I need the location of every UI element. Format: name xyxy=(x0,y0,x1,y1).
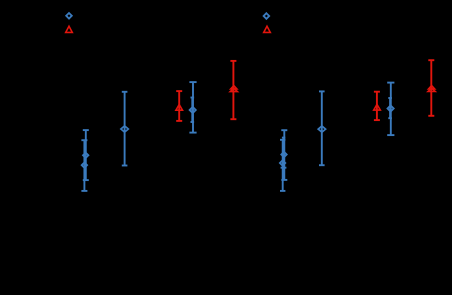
marker R3r (red triangle) xyxy=(374,104,381,110)
legend marker series2 (red triangle) xyxy=(66,26,73,32)
marker L4a (red triangle) xyxy=(231,86,237,89)
marker L2 (blue diamond) xyxy=(121,126,128,132)
legend marker series1 (blue diamond) xyxy=(66,13,72,19)
error bar R3b inner (blue) xyxy=(388,98,392,118)
marker R3b (blue diamond) xyxy=(388,105,394,111)
marker L3b (blue diamond) xyxy=(190,107,196,113)
error bar L4 (red) xyxy=(230,61,236,119)
legend marker series1 right (blue diamond) xyxy=(264,13,270,19)
error bar R1a (blue) xyxy=(281,130,287,180)
marker R2 (blue diamond) xyxy=(318,126,325,132)
marker L1b (blue diamond) xyxy=(82,162,87,167)
error bar L3b outer (blue) xyxy=(189,82,196,133)
error bar R1b (blue) xyxy=(280,140,285,191)
error bar L3b inner (blue) xyxy=(191,98,195,123)
marker R1b (blue diamond) xyxy=(280,160,285,165)
error bar R1c (blue, short inner) xyxy=(281,138,287,168)
error bar R2 (blue) xyxy=(319,91,325,165)
error bar R3b outer (blue) xyxy=(387,83,394,136)
legend marker series2 right (red triangle) xyxy=(264,26,271,32)
marker L4b (red triangle) xyxy=(230,88,237,91)
error bar L1a (blue) xyxy=(83,130,89,180)
marker R4b (red triangle) xyxy=(428,88,435,91)
error bar L2 (blue) xyxy=(122,92,128,166)
marker L3r (red triangle) xyxy=(176,105,183,111)
error bar L1b (blue) xyxy=(81,140,87,191)
marker R1a (blue diamond) xyxy=(281,152,286,157)
error bar L3r (red) xyxy=(176,91,182,121)
error bar R3r (red) xyxy=(374,92,380,120)
marker R4a (red triangle) xyxy=(429,86,435,89)
error bar R4 (red) xyxy=(428,60,434,116)
marker L1a (blue diamond) xyxy=(83,153,88,158)
